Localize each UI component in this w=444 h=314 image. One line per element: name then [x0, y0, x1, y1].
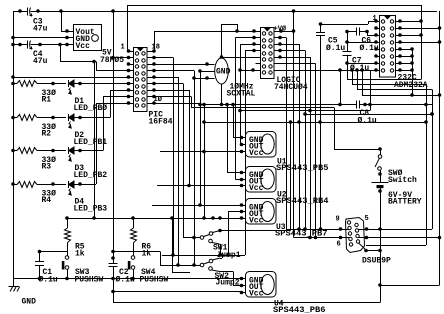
wire riser x237 to logic pin1	[237, 24, 239, 31]
servo connector U3 SPS443_PB7	[246, 199, 277, 225]
svg-text:74HCUØ4: 74HCUØ4	[274, 83, 308, 92]
wire logic out to bus x299	[274, 44, 299, 46]
svg-text:PUSHSW: PUSHSW	[75, 276, 104, 285]
capacitor C5 0.1u	[320, 24, 322, 32]
switch SW4 pushbutton	[133, 252, 135, 256]
wire y89 nest	[357, 70, 359, 90]
wire xtal net to LOGIC in5	[222, 57, 261, 59]
wire frame x426	[426, 85, 428, 246]
svg-text:Vcc: Vcc	[249, 217, 264, 226]
wire D2 riser x110	[80, 117, 110, 119]
wire SW1 throw2 to y255	[219, 244, 222, 246]
wire C7 bottom to 232C	[347, 63, 376, 65]
svg-text:ADM232A: ADM232A	[394, 81, 428, 90]
wire D3 riser x103	[80, 150, 103, 152]
wire left rail	[13, 11, 15, 279]
wire top rail y11	[13, 11, 27, 13]
wire SW0 feed y149	[334, 149, 380, 151]
232C right pin stubs	[396, 21, 401, 23]
svg-text:SPS443_RB4: SPS443_RB4	[276, 197, 329, 206]
capacitor C6 0.1u	[347, 31, 356, 33]
wire PIC pin16 to resonator	[154, 64, 215, 66]
bus x299 to DSUB net y229	[299, 44, 301, 229]
wire resonator bottom riser	[221, 84, 223, 105]
wire long riser x113	[113, 11, 115, 263]
svg-text:PUSHSW: PUSHSW	[140, 276, 169, 285]
switch SW0	[380, 149, 382, 155]
svg-text:LED_RBØ: LED_RBØ	[74, 104, 108, 113]
wire U4 OUT riser x233 from SW2	[233, 272, 235, 286]
svg-text:Jump2: Jump2	[216, 279, 240, 288]
wire C8 riser x340	[340, 70, 342, 105]
wire jumper line y255	[162, 255, 245, 257]
wire logic y70 long line to 232C	[274, 70, 376, 72]
svg-text:Ø.1u: Ø.1u	[39, 276, 58, 285]
svg-text:Switch: Switch	[388, 176, 417, 185]
svg-text:SPS443_PB7: SPS443_PB7	[275, 230, 328, 239]
wire DSUB row y237	[359, 237, 440, 239]
regulator 78M05 box	[74, 25, 102, 51]
svg-text:LED_PB2: LED_PB2	[74, 171, 108, 180]
wire frame x432 to DSUB y229	[432, 90, 434, 230]
wire y79 nest	[347, 63, 349, 80]
wire PIC pin10 GND line	[154, 103, 200, 105]
wire y285 to battery minus	[380, 285, 440, 287]
wire C5 top y24	[321, 24, 369, 26]
wire bottom rail y302	[113, 302, 380, 304]
DSUB pins	[347, 221, 350, 224]
bus x204 Vcc feeds	[204, 105, 206, 219]
wire PIC pin11 to SW0 net	[154, 96, 191, 98]
diode D4 LED_PB3	[68, 181, 70, 188]
svg-text:Vcc: Vcc	[249, 184, 264, 193]
resistor R3 330	[13, 150, 17, 152]
svg-text:DSUB9P: DSUB9P	[362, 257, 391, 266]
switch SW3 pushbutton	[67, 252, 69, 256]
svg-text:LED_PB3: LED_PB3	[74, 205, 108, 214]
wire D4 riser x96	[80, 184, 96, 186]
wire pullup rail y218 to U3 Vcc	[67, 218, 246, 220]
svg-text:Ø.1u: Ø.1u	[326, 44, 345, 53]
wire LOGIC in4 to jumper riser x245	[245, 50, 256, 52]
wire resonator top riser to y24	[221, 24, 223, 58]
wire PIC pin18 riser clock net y31	[154, 31, 156, 51]
IC body 232C ADM232A	[380, 16, 396, 78]
svg-text:R2: R2	[42, 130, 52, 139]
wire x113 branch to PIC pin2	[113, 57, 134, 59]
servo connector U1 SPS443_PB5	[246, 132, 277, 158]
resonator SCXTAL oval	[215, 58, 229, 84]
svg-text:Vcc: Vcc	[249, 149, 264, 158]
svg-text:SPS443_PB6: SPS443_PB6	[273, 306, 326, 314]
bus x173 PIC to jumper line y255	[173, 58, 175, 256]
svg-text:Ø.1u: Ø.1u	[116, 276, 135, 285]
LOGIC left pin stubs	[256, 31, 261, 33]
wire x334 riser to SW0 line	[334, 108, 336, 150]
resistor R2 330	[13, 117, 17, 119]
wire Vout to top rail	[61, 11, 63, 31]
svg-text:6: 6	[337, 241, 341, 249]
svg-text:47u: 47u	[33, 25, 48, 34]
svg-text:R1: R1	[42, 96, 52, 105]
diode D3 LED_PB2	[68, 147, 70, 154]
wire x172 riser down	[172, 218, 174, 272]
wire LOGIC in2 to U2 OUT riser x235	[236, 37, 256, 39]
switch SW1 jumper	[200, 236, 204, 240]
PIC right pin stubs	[147, 51, 154, 53]
wire right frame x421 to nest	[421, 5, 423, 80]
capacitor C3 47u	[27, 8, 29, 16]
resistor R6 1k	[133, 218, 135, 228]
232C left pin stubs	[376, 21, 380, 23]
svg-text:1k: 1k	[142, 250, 152, 259]
wire R6 junction to SW2 common	[133, 251, 160, 253]
wire y114 long	[305, 114, 432, 116]
capacitor C7 0.1u	[347, 32, 349, 52]
svg-text:Vcc: Vcc	[249, 290, 264, 299]
wire PIC pin12 to bus x189	[154, 90, 189, 92]
svg-text:9: 9	[336, 216, 340, 224]
wire C7 top to 232C	[347, 42, 376, 44]
wire riser x127 to PIC pin1	[127, 5, 129, 51]
wire U1 Vcc	[160, 151, 246, 153]
svg-text:GND: GND	[216, 68, 231, 77]
resistor R4 330	[13, 184, 17, 186]
battery 6V-9V	[372, 182, 389, 184]
servo connector U2 SPS443_RB4	[246, 167, 277, 193]
bus x178 PIC to SW2	[178, 77, 180, 265]
wire U2 Vcc	[157, 185, 246, 187]
diode D1 LED_RBØ	[68, 80, 70, 87]
wire LOGIC in3 to U1 OUT riser x240	[240, 44, 256, 46]
wire U3 OUT riser x228 jumper	[228, 212, 230, 256]
wire GND pin to left rail	[13, 37, 73, 39]
svg-text:1: 1	[121, 44, 125, 52]
wire y110 to riser x370	[240, 110, 370, 112]
wire +V0 net y31	[274, 31, 294, 33]
bus x305 down to DSUB net y229	[305, 51, 307, 230]
capacitor C8 0.1u	[356, 101, 358, 109]
wire GND net y104 long	[200, 104, 356, 106]
wire y84 nest	[352, 70, 354, 85]
wire U3 Vcc	[202, 216, 206, 220]
bus x320 C5 down to y229	[320, 36, 322, 230]
wire LOGIC in7 to riser x240	[240, 70, 261, 72]
svg-text:SPS443_PB5: SPS443_PB5	[276, 164, 329, 173]
wire top rail y5	[128, 5, 422, 7]
wire PIC pin13 to bus x183	[154, 83, 183, 85]
wire resonator mid to gnd riser x200	[200, 71, 215, 73]
resistor R5 1k	[67, 218, 69, 228]
wire logic out to bus x286	[274, 37, 286, 39]
svg-text:78MØ5: 78MØ5	[100, 56, 124, 65]
wire R6 C2 junction	[113, 251, 133, 253]
bus x183 PIC to SW1	[183, 84, 185, 238]
bus x315 to DSUB net y237	[315, 64, 317, 238]
wire 5V drop x293	[293, 11, 295, 31]
wire ground rail y278 to U4 GND	[13, 278, 246, 280]
svg-text:LED_PB1: LED_PB1	[74, 138, 108, 147]
wire U3 GND from x200	[200, 105, 202, 206]
wire Vcc feed down x60 x94	[60, 45, 62, 62]
diode D2 LED_PB1	[68, 114, 70, 121]
wire y122 long	[204, 122, 426, 124]
wire U1 GND riser x233	[233, 105, 235, 138]
bus x293 to DSUB	[293, 31, 295, 238]
wire logic out to bus x315	[274, 63, 316, 65]
IC body PIC 16F84	[134, 48, 148, 112]
bus x310 down to y237	[310, 57, 312, 238]
wire D1 to PIC pin6	[80, 83, 129, 85]
servo connector U4 SPS443_PB6	[246, 272, 277, 298]
ground symbol	[13, 279, 15, 287]
wire PIC pin17 to bus x173	[154, 57, 173, 59]
IC body LOGIC 74HCU04	[261, 28, 275, 79]
wire x96 to PIC pin4	[96, 62, 98, 71]
svg-text:BATTERY: BATTERY	[388, 198, 422, 207]
DSUB9P connector shape	[346, 218, 365, 253]
wire DSUB row y245	[366, 245, 426, 247]
resistor R1 330	[13, 83, 17, 85]
wire y291 to U4 Vcc	[113, 291, 241, 293]
bus x286 to DSUB	[286, 38, 288, 230]
PIC left pin stubs	[129, 57, 134, 59]
wire PIC pin15 to resonator	[154, 70, 194, 72]
switch SW2 jumper	[200, 263, 204, 267]
wire DSUB bottom hook	[359, 243, 367, 251]
svg-text:1k: 1k	[75, 250, 85, 259]
wire logic out to bus x310	[274, 57, 310, 59]
wire Vcc line y44	[13, 44, 27, 46]
wire 232C pins to right frame	[400, 21, 421, 23]
wire y95 nest	[362, 70, 364, 95]
svg-text:Ø.1u: Ø.1u	[358, 117, 377, 126]
wire riser x370 C8 right	[370, 70, 372, 111]
wire PIC pin14 to bus x178	[154, 77, 178, 79]
svg-text:5: 5	[365, 215, 369, 223]
svg-text:16F84: 16F84	[149, 118, 173, 127]
wire VSS pin5 to left rail	[13, 77, 129, 79]
svg-text:SCXTAL: SCXTAL	[227, 90, 256, 99]
wire U2 GND riser x227	[227, 105, 229, 173]
wire R5 C1 junction	[40, 251, 68, 253]
wire SW1 throw1 to bus riser x290	[228, 230, 291, 232]
bus x189 PIC to U2 Vcc riser	[189, 90, 191, 186]
wire right frame x439	[439, 11, 441, 285]
svg-text:GND: GND	[22, 298, 37, 307]
svg-text:R3: R3	[42, 163, 52, 172]
svg-text:R4: R4	[42, 196, 52, 205]
capacitor C2 0.1u	[109, 263, 118, 265]
wire logic out to bus x305	[274, 50, 305, 52]
svg-text:47u: 47u	[33, 57, 48, 66]
capacitor C4 47u	[27, 41, 29, 49]
svg-text:Vcc: Vcc	[76, 42, 91, 51]
capacitor C1 0.1u	[39, 252, 41, 262]
wire SW0 net y107 to x334	[191, 107, 334, 109]
